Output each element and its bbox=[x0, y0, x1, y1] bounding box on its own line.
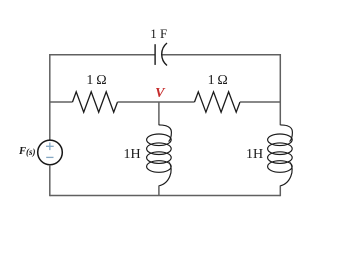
inductor L1 (1H, middle) bbox=[147, 125, 172, 186]
wire right rail lower bbox=[279, 186, 281, 197]
wire left rail lower bbox=[49, 165, 51, 196]
svg-text:1 Ω: 1 Ω bbox=[86, 73, 106, 88]
wire mid row: left rail to R1 bbox=[50, 101, 73, 103]
svg-text:V: V bbox=[155, 86, 166, 101]
wire right rail upper bbox=[279, 54, 281, 125]
wire bottom bbox=[50, 195, 280, 197]
capacitor C1 (1 F) bbox=[155, 43, 167, 66]
wire left rail upper bbox=[49, 54, 51, 140]
wire top-left segment bbox=[50, 54, 155, 56]
wire mid row: R2 to right rail bbox=[240, 101, 280, 103]
wire top-right segment bbox=[162, 54, 280, 56]
wire: middle inductor bottom lead bbox=[158, 186, 160, 197]
svg-text:F(s): F(s) bbox=[18, 146, 36, 157]
resistor R2 (1 Ohm) bbox=[195, 92, 241, 112]
svg-text:1 Ω: 1 Ω bbox=[208, 73, 228, 88]
voltage source U1 bbox=[38, 140, 63, 165]
svg-text:1 F: 1 F bbox=[150, 26, 167, 41]
svg-text:1H: 1H bbox=[123, 147, 140, 162]
inductor L2 (1H, right) bbox=[268, 125, 293, 186]
wire: middle inductor top lead bbox=[158, 102, 160, 125]
wire mid row: R1 to R2 through node V bbox=[118, 101, 195, 103]
svg-text:1H: 1H bbox=[246, 147, 263, 162]
resistor R1 (1 Ohm) bbox=[73, 92, 118, 112]
